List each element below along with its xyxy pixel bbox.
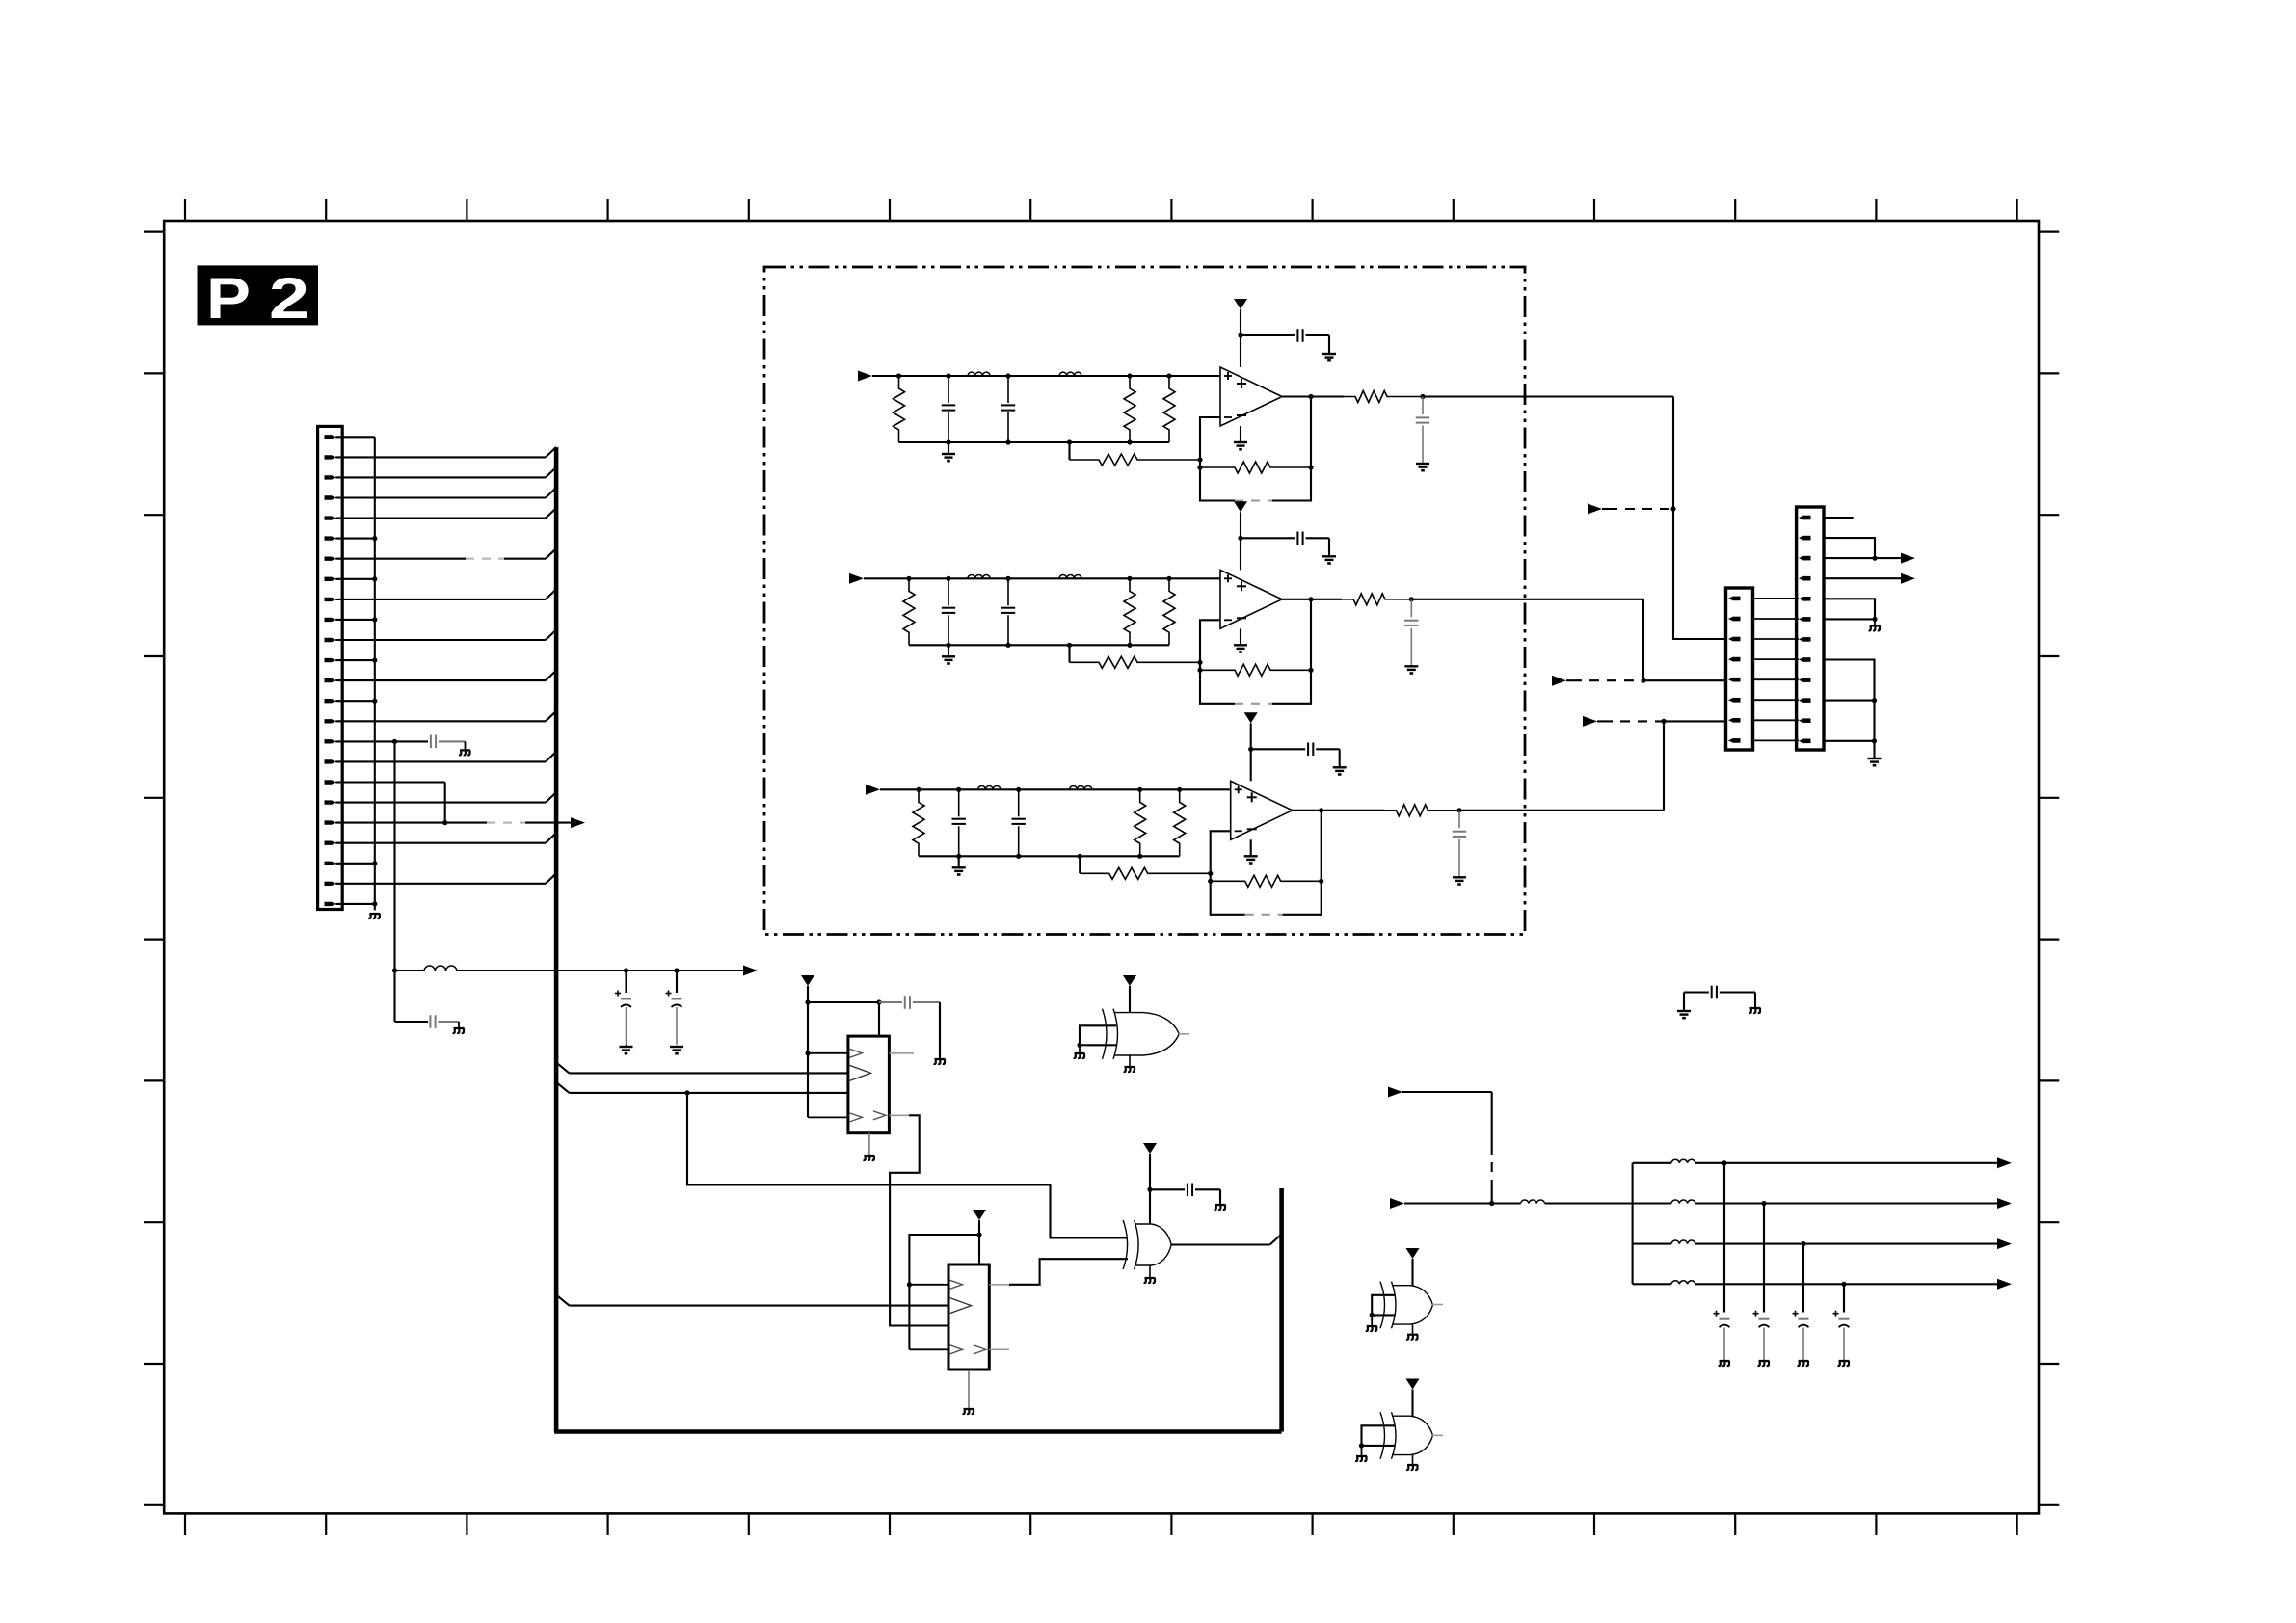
wire arrow E row <box>1404 1202 1521 1204</box>
connector CN1 pin 1 <box>325 435 336 439</box>
resistor R31 <box>916 787 921 792</box>
wire stage 1 input row <box>872 375 1220 377</box>
wire stage 2 output to connector <box>1411 599 1643 600</box>
capacitor C14 output to ground <box>1420 394 1425 399</box>
connector CN3 pin 4 <box>1799 576 1804 581</box>
wire FF1 left rail <box>807 1002 809 1117</box>
connector CN1 pin 16 <box>325 739 336 743</box>
connector CN1 pin 23 <box>325 882 336 886</box>
electrolytic capacitor C21 <box>624 968 628 972</box>
filter block outline (dash-dot) <box>764 267 1525 935</box>
off-page arrow B (dashed) <box>1552 676 1566 686</box>
connector CN1 pin 20 <box>325 820 336 824</box>
connector CN3 pin 11 <box>1799 718 1804 723</box>
power arrow FF1 <box>801 975 814 986</box>
ground stage 2 rail <box>948 645 949 656</box>
resistor R33 <box>1177 787 1182 792</box>
wire CN2 pin 4 to CN3 pin 8 <box>1753 658 1800 660</box>
capacitor C23 supply decoupling <box>1241 537 1295 539</box>
wire LC left rail <box>1632 1163 1634 1285</box>
border frame <box>164 221 2039 1513</box>
connector CN3 pin 10 <box>1799 698 1804 703</box>
connector CN1 pin 21 <box>325 841 336 845</box>
connector CN2 pin 3 <box>1728 636 1734 641</box>
wire FF1 supply rail <box>808 1001 879 1003</box>
connector CN1 pin 5 <box>325 516 336 519</box>
connector CN1 pin 8 <box>325 577 336 581</box>
capacitor C30 between grounds <box>1683 993 1685 1011</box>
arrow out LC row 4 <box>1997 1279 2012 1290</box>
inner junction rail of CN1 <box>374 437 376 910</box>
wire stage 3 output to connector <box>1459 810 1664 811</box>
connector CN1 pin 19 <box>325 800 336 804</box>
power arrow XOR U9 <box>1406 1379 1420 1390</box>
wire CN1 pin 23 to bus <box>335 883 546 885</box>
wire CN2 pin 1 to CN3 pin 5 <box>1753 598 1800 599</box>
input arrow E <box>1390 1198 1404 1209</box>
XOR gate U7 <box>1123 1220 1128 1269</box>
capacitor C23 to chassis ground <box>395 1021 429 1023</box>
stub FF1 output Q <box>889 1052 914 1054</box>
resistor R23 <box>1166 576 1171 581</box>
wire CN1 pin 9 to bus <box>335 599 546 600</box>
connector CN1 pin 13 <box>325 678 336 682</box>
inductor L22 <box>1059 574 1081 578</box>
wire CN1 pin 21 to bus <box>335 842 546 844</box>
wire stage 2 feedback box <box>1200 670 1235 704</box>
resistor R12 <box>1127 373 1132 378</box>
ground LC row 4 <box>1838 1361 1850 1366</box>
resistor R32 <box>1137 787 1142 792</box>
resistor R35 feedback <box>1211 875 1322 887</box>
XOR gate U6 <box>1103 1009 1108 1059</box>
ground stage 1 rail <box>948 442 949 454</box>
ground CN3 pin 8 rail <box>1868 758 1882 759</box>
wire stage2 output drop <box>1643 599 1726 680</box>
stub FF2 output 2 <box>974 1345 986 1354</box>
wire CN1 pin 6 to rail <box>335 538 375 540</box>
flip-flop U4 body <box>848 1036 890 1133</box>
resistor R11 <box>896 373 901 378</box>
ground FF2 <box>968 1370 970 1408</box>
power arrow stage 3 <box>1244 712 1258 723</box>
connector CN3 pin 3 <box>1799 556 1804 561</box>
inductor L12 <box>1633 1202 1671 1204</box>
connector CN3 pin 9 <box>1799 678 1804 682</box>
ground for CN1 rail <box>368 914 380 918</box>
connector CN1 pin 10 <box>325 618 336 622</box>
connector CN2 pin 2 <box>1728 616 1734 621</box>
wire CN2 pin 7 to CN3 pin 11 <box>1753 719 1800 721</box>
connector CN2 pin 8 <box>1728 738 1734 743</box>
inductor L11 <box>968 372 990 376</box>
wire FF1 output to FF2 <box>873 1111 886 1120</box>
wire node down from pin16 <box>393 741 395 1022</box>
wire CN3 pin 6 <box>1824 618 1875 620</box>
connector CN2 pin 5 <box>1728 678 1734 682</box>
wire CN1 pin 16 with capacitor C20 to ground <box>335 740 428 742</box>
resistor R22 <box>1127 576 1132 581</box>
wire op-amp U2 inverting input <box>1200 620 1220 670</box>
inductor L21 <box>968 574 990 578</box>
connector CN3 pin 1 <box>1799 515 1804 519</box>
wire CN2 pin 6 to CN3 pin 10 <box>1753 699 1800 701</box>
ground LC row 2 <box>1758 1361 1770 1366</box>
connector CN1 pin 2 <box>325 455 336 459</box>
XOR gate U8 <box>1380 1282 1385 1329</box>
ground XOR U7 <box>1149 1265 1151 1277</box>
capacitor C22 <box>1005 576 1010 581</box>
power arrow FF2 <box>973 1210 986 1220</box>
electrolytic capacitor C31 <box>1723 1163 1725 1313</box>
wire CN1 pin 7 to bus <box>335 558 466 560</box>
ground stage 3 rail <box>958 856 960 867</box>
wire LC row 4 <box>1695 1283 1997 1285</box>
resistor R13 <box>1166 373 1171 378</box>
ground LC row 1 <box>1719 1361 1730 1366</box>
wire XOR U7 output to bus <box>1171 1243 1270 1245</box>
arrow out LC row 3 <box>1997 1238 2012 1249</box>
input arrow stage 3 <box>866 785 880 795</box>
wire stage 1 output to connector <box>1423 395 1673 397</box>
wire FF1 pin1 <box>808 1052 848 1054</box>
wire FF1 pin4 <box>808 1116 848 1118</box>
ground LC row 3 <box>1798 1361 1809 1366</box>
wire op-amp U1 inverting input <box>1200 417 1220 467</box>
capacitor C32 <box>1016 787 1021 792</box>
wire CN1 pin 20 to arrow <box>335 822 487 824</box>
connector CN1 pin 12 <box>325 658 336 662</box>
electrolytic capacitor C33 <box>1802 1244 1804 1313</box>
inductor L14 <box>1633 1283 1671 1285</box>
arrow out LC row 1 <box>1997 1157 2012 1168</box>
resistor R21 <box>906 576 911 581</box>
svg-text:P: P <box>206 266 251 331</box>
connector CN1 body <box>318 426 343 909</box>
wire stage 1 bottom rail <box>899 441 1170 443</box>
wire LC row 3 <box>1695 1243 1997 1245</box>
resistor R24 feedback from rail <box>1068 645 1070 662</box>
stub XOR U8 output <box>1432 1304 1443 1306</box>
connector CN3 pin 6 <box>1799 617 1804 622</box>
page label P2 <box>198 265 319 331</box>
wire FF2 pin4 <box>909 1348 948 1350</box>
connector CN3 pin 12 <box>1799 738 1804 743</box>
op-amp U1 <box>1220 367 1282 426</box>
inductor L31 <box>978 785 1001 789</box>
inductor L12 <box>1059 372 1081 376</box>
connector CN3 pin 7 <box>1799 637 1804 642</box>
ground FF1 <box>868 1133 870 1155</box>
wire CN1 pin 3 to bus <box>335 476 546 478</box>
ground CN3 pin 6 <box>1874 619 1876 625</box>
capacitor C24 FF1 supply <box>879 1001 902 1003</box>
wire bus to FF2 clock <box>556 1295 569 1306</box>
power arrow XOR U8 <box>1406 1248 1420 1259</box>
ground XOR U6 <box>1129 1055 1131 1066</box>
connector CN1 pin 7 <box>325 557 336 561</box>
resistor R14 feedback from rail <box>1068 442 1070 460</box>
wire stage 1 feedback box <box>1200 467 1235 501</box>
capacitor C21 <box>946 576 950 581</box>
wire CN1 pin 24 to rail and ground <box>335 903 375 905</box>
wire FF2 pin1 <box>909 1284 948 1286</box>
wire CN1 pin 22 to rail <box>335 863 375 865</box>
wire op-amp U3 inverting input <box>1211 831 1231 881</box>
wire FF2 output to XOR2 <box>989 1284 1009 1286</box>
wire CN1 pin 4 to bus <box>335 496 546 498</box>
connector CN1 pin 24 <box>325 902 336 906</box>
wire LC feed line <box>392 968 397 972</box>
off-page arrow C (dashed) <box>1583 716 1597 727</box>
wire CN3 pin 4 to arrow <box>1824 577 1902 579</box>
wire CN2 pin 8 to CN3 pin 12 <box>1753 739 1800 741</box>
arrow out LC feed <box>743 966 758 976</box>
capacitor C24 output to ground <box>1409 597 1414 601</box>
input loop XOR U6 <box>1080 1025 1116 1045</box>
wire CN3 pin 3 to arrow <box>1824 557 1902 559</box>
bus right vertical <box>1279 1188 1284 1432</box>
capacitor C13 supply decoupling <box>1241 334 1295 336</box>
wire stage 2 input row <box>864 577 1220 579</box>
capacitor C25 XOR U7 supply <box>1150 1188 1185 1190</box>
wire stage 3 input row <box>880 788 1231 790</box>
wire CN1 pin 14 to rail <box>335 700 375 702</box>
input arrow D <box>1388 1087 1402 1098</box>
connector CN1 pin 14 <box>325 699 336 703</box>
connector CN2 body <box>1726 588 1753 750</box>
resistor R25 feedback <box>1200 664 1311 676</box>
resistor R26 output <box>1342 594 1411 605</box>
resistor R16 output <box>1344 391 1423 403</box>
connector CN1 pin 9 <box>325 598 336 601</box>
op-amp U3 <box>1231 781 1293 839</box>
wire CN1 pin 15 to bus <box>335 720 546 722</box>
electrolytic capacitor C32 <box>1763 1204 1765 1313</box>
wire bus to FF1 pin3 <box>556 1082 569 1093</box>
wire FF1 pin3 branch to XOR2 <box>687 1093 1128 1238</box>
connector CN2 pin 6 <box>1728 698 1734 703</box>
wire CN1 pin 12 to rail <box>335 659 375 661</box>
electrolytic capacitor C22 <box>674 968 679 972</box>
connector CN2 pin 7 <box>1728 718 1734 723</box>
wire CN1 pin 1 to rail <box>335 436 375 438</box>
wire CN2 pin 5 to CN3 pin 9 <box>1753 678 1800 680</box>
wire LC row 1 <box>1695 1162 1997 1164</box>
resistor R34 feedback from rail <box>1079 856 1081 873</box>
inductor L11 <box>1633 1162 1671 1164</box>
wire LC row 2 <box>1695 1202 1997 1204</box>
connector CN1 pin 17 <box>325 759 336 763</box>
bus bottom horizontal <box>554 1429 1282 1434</box>
stub XOR U9 output <box>1432 1434 1443 1436</box>
wire FF2 left rail <box>909 1235 979 1349</box>
wire arrow D to junction <box>1402 1091 1492 1093</box>
calibration tick marks top/bottom/left/right <box>144 199 2059 1535</box>
power arrow XOR U6 <box>1123 975 1136 986</box>
off-page arrow A (dashed) <box>1588 504 1602 515</box>
stub XOR U6 output <box>1179 1033 1189 1035</box>
power arrow stage 1 <box>1234 299 1247 309</box>
wire CN2 pin 2 to CN3 pin 6 <box>1753 618 1800 620</box>
connector CN1 pin 3 <box>325 475 336 479</box>
op-amp U2 <box>1220 570 1282 628</box>
wire CN1 pin 18 <box>335 781 444 783</box>
bus vertical <box>554 447 559 1431</box>
connector CN2 pin 1 <box>1728 596 1734 600</box>
wire stage 3 bottom rail <box>919 855 1180 857</box>
ground op-amp U2 <box>1240 628 1241 645</box>
inductor L32 <box>1070 785 1092 789</box>
connector CN3 pin 5 <box>1799 597 1804 601</box>
ground op-amp U1 <box>1240 426 1241 442</box>
wire CN3 pin 8 to ground <box>1824 660 1875 758</box>
wire stage 3 feedback box <box>1211 881 1245 915</box>
svg-text:2: 2 <box>269 266 309 331</box>
inductor L1 <box>424 966 457 971</box>
connector CN1 pin 11 <box>325 638 336 642</box>
wire CN1 pin 5 to bus <box>335 518 546 519</box>
connector CN3 pin 2 <box>1799 536 1804 541</box>
resistor R15 feedback <box>1200 462 1311 473</box>
wire stage 2 bottom rail <box>909 644 1169 646</box>
flip-flop U5 body <box>948 1264 989 1370</box>
ground op-amp U3 <box>1250 839 1252 856</box>
wire CN3 pin 10 <box>1824 700 1875 702</box>
resistor R36 output <box>1384 805 1459 816</box>
wire CN1 pin 17 to bus <box>335 760 546 762</box>
connector CN1 pin 4 <box>325 495 336 499</box>
connector CN2 pin 4 <box>1728 657 1734 662</box>
ground XOR U8 <box>1412 1324 1414 1334</box>
wire stage 3 output <box>1293 810 1385 811</box>
electrolytic capacitor C34 <box>1843 1284 1845 1312</box>
capacitor C12 <box>1005 373 1010 378</box>
wire CN3 pin 12 <box>1824 740 1875 742</box>
input loop XOR U8 <box>1372 1295 1395 1316</box>
capacitor C11 <box>946 373 950 378</box>
capacitor C31 <box>956 787 961 792</box>
wire CN3 pin 5 <box>1824 599 1875 619</box>
wire bus to FF1 clock <box>556 1062 569 1073</box>
wire CN1 pin 2 to bus <box>335 456 546 458</box>
capacitor C33 supply decoupling <box>1251 748 1306 750</box>
input arrow stage 2 <box>849 573 864 584</box>
capacitor C34 output to ground <box>1456 808 1461 812</box>
input arrow stage 1 <box>858 371 872 382</box>
power arrow stage 2 <box>1234 501 1247 512</box>
connector CN1 pin 6 <box>325 536 336 540</box>
inductor L10 <box>1521 1200 1545 1204</box>
inductor L13 <box>1633 1243 1671 1245</box>
wire CN3 pin 2 <box>1824 538 1875 558</box>
power arrow XOR U7 <box>1143 1143 1157 1154</box>
ground XOR U9 <box>1412 1455 1414 1464</box>
connector CN3 pin 8 <box>1799 657 1804 662</box>
wire CN2 pin 3 to CN3 pin 7 <box>1753 638 1800 640</box>
connector CN1 pin 15 <box>325 719 336 723</box>
wire stage1 output drop <box>1673 397 1726 640</box>
wire CN3 pin 1 <box>1824 517 1854 519</box>
wire CN1 pin 13 to bus <box>335 679 546 681</box>
wire stage 2 output <box>1282 599 1342 600</box>
wire CN1 pin 19 to bus <box>335 802 546 804</box>
connector CN1 pin 22 <box>325 862 336 865</box>
input loop XOR U9 <box>1362 1425 1396 1446</box>
connector CN1 pin 18 <box>325 780 336 784</box>
wire stage 1 output <box>1282 395 1344 397</box>
wire CN1 pin 11 to bus <box>335 639 546 641</box>
wire CN1 pin 10 to rail <box>335 619 375 621</box>
wire CN1 pin 8 to rail <box>335 578 375 580</box>
XOR gate U9 <box>1380 1412 1385 1459</box>
arrow out LC row 2 <box>1997 1198 2012 1209</box>
connector CN3 body <box>1797 507 1824 750</box>
wire stage3 output rise <box>1664 721 1726 810</box>
